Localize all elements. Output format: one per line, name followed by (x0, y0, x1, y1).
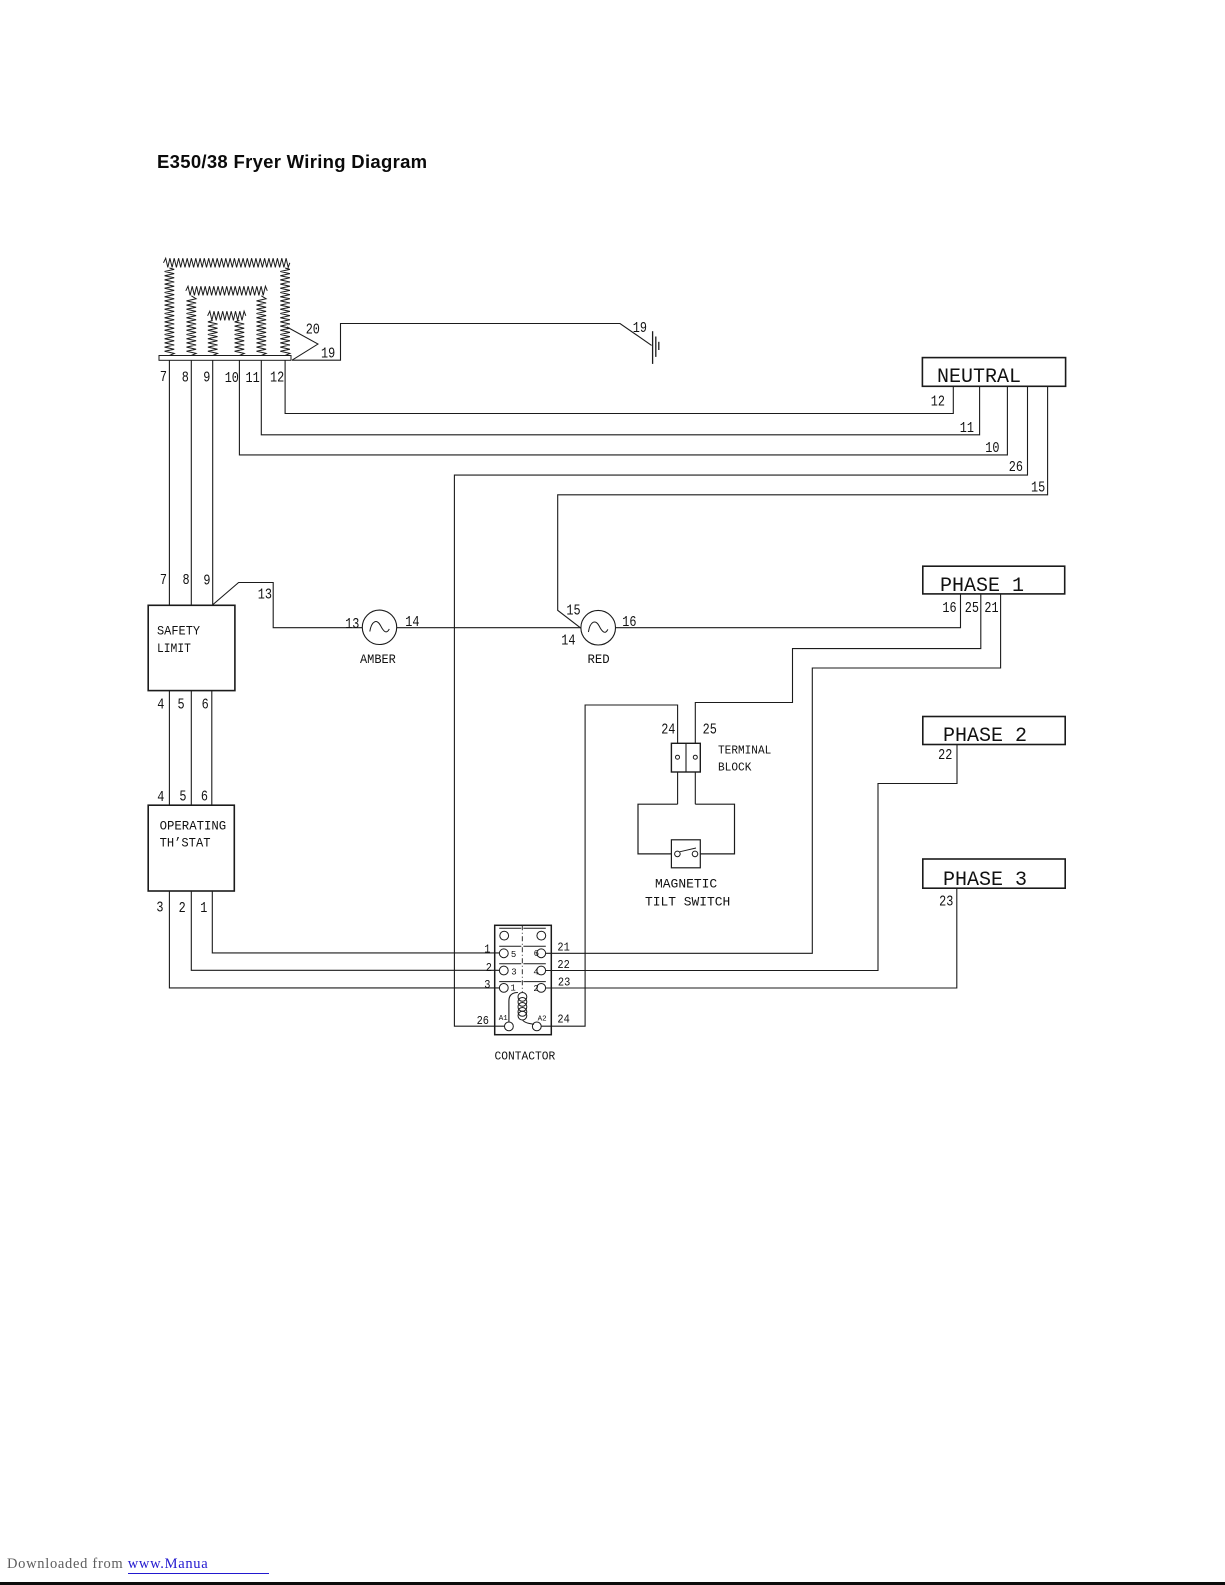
wire 16 RED lamp to PHASE 1 (616, 594, 961, 628)
tilt switch contact left (675, 851, 681, 857)
svg-text:20: 20 (306, 322, 320, 338)
wire 10 to NEUTRAL (239, 360, 1007, 455)
heating element E3 inner coil (208, 311, 246, 355)
NEUTRAL bus box (922, 358, 1065, 387)
svg-text:1: 1 (484, 944, 490, 957)
wire 2 op stat to contactor (191, 891, 499, 970)
wire 15 NEUTRAL to RED lamp (558, 386, 1048, 628)
heating element E2 middle coil (186, 286, 267, 355)
svg-text:15: 15 (566, 604, 580, 620)
wire 26 NEUTRAL to contactor A1 (454, 386, 1027, 1026)
svg-text:4: 4 (157, 698, 164, 714)
svg-text:A2: A2 (538, 1015, 547, 1023)
svg-text:3: 3 (511, 967, 516, 977)
wire 13 safety limit to AMBER lamp (213, 583, 362, 628)
svg-text:9: 9 (203, 574, 210, 590)
terminal lead 9 (212, 360, 214, 605)
svg-text:8: 8 (183, 573, 190, 589)
svg-text:9: 9 (203, 371, 210, 387)
svg-text:21: 21 (557, 941, 569, 954)
operating thermostat box (148, 805, 234, 891)
contactor centerline (521, 925, 523, 992)
wire 3 op stat to contactor (169, 891, 499, 988)
svg-text:24: 24 (557, 1013, 569, 1026)
svg-text:5: 5 (179, 790, 186, 806)
svg-text:6: 6 (201, 790, 208, 806)
indicator lamp RED (581, 610, 616, 645)
svg-text:25: 25 (965, 601, 979, 617)
svg-text:24: 24 (661, 723, 675, 739)
svg-text:11: 11 (960, 421, 974, 437)
svg-text:21: 21 (984, 601, 998, 617)
wire 12 to NEUTRAL (285, 360, 953, 413)
PHASE 1 supply box (923, 566, 1065, 594)
svg-text:19: 19 (633, 321, 647, 337)
terminal block lead 25 down (694, 772, 696, 804)
terminal 24 contact (676, 755, 680, 759)
contactor top contacts (500, 931, 509, 940)
svg-text:AMBER: AMBER (360, 653, 396, 667)
svg-text:22: 22 (557, 959, 569, 972)
svg-text:13: 13 (258, 587, 272, 603)
svg-text:OPERATING: OPERATING (160, 819, 227, 833)
svg-text:23: 23 (939, 894, 953, 910)
svg-text:7: 7 (160, 573, 167, 589)
svg-text:4: 4 (533, 967, 538, 977)
wire 5 (190, 691, 192, 806)
svg-text:12: 12 (931, 394, 945, 410)
page bottom rule (0, 1582, 1225, 1585)
svg-text:TH’STAT: TH’STAT (160, 836, 211, 850)
svg-text:16: 16 (942, 601, 956, 617)
indicator lamp AMBER (362, 610, 396, 644)
svg-text:6: 6 (202, 698, 209, 714)
contactor pole bars (499, 927, 521, 929)
probe arrow (element sensor) (287, 327, 318, 360)
svg-text:RED: RED (588, 653, 610, 667)
tilt switch contact right (692, 851, 698, 857)
svg-text:TERMINAL: TERMINAL (718, 745, 771, 758)
svg-text:26: 26 (1009, 460, 1023, 476)
svg-text:23: 23 (558, 977, 570, 990)
svg-text:1: 1 (510, 984, 515, 994)
contactor pole 3-4 contacts (499, 966, 508, 975)
ground symbol (652, 331, 654, 364)
safety limit thermostat box (148, 605, 235, 690)
svg-text:PHASE 1: PHASE 1 (940, 575, 1024, 598)
terminal block TB1 (671, 743, 700, 772)
svg-text:LIMIT: LIMIT (157, 642, 191, 656)
wire 25 PHASE 1 to terminal block (695, 594, 981, 743)
svg-text:14: 14 (561, 633, 575, 649)
wire 22 PHASE 2 to contactor (546, 745, 958, 971)
svg-text:16: 16 (622, 615, 636, 631)
svg-text:A1: A1 (499, 1015, 509, 1023)
svg-text:1: 1 (200, 901, 207, 917)
contactor pole 1-2 contacts (499, 984, 508, 993)
svg-text:2: 2 (533, 984, 538, 994)
svg-text:2: 2 (486, 962, 492, 975)
svg-text:25: 25 (703, 723, 717, 739)
wire 23 PHASE 3 to contactor (546, 888, 957, 988)
svg-text:14: 14 (405, 615, 419, 631)
svg-text:13: 13 (345, 617, 359, 633)
wire 1 op stat to contactor (212, 891, 499, 953)
wire 6 (211, 691, 213, 806)
svg-text:SAFETY: SAFETY (157, 624, 201, 638)
diagram title (157, 151, 427, 173)
svg-text:PHASE 3: PHASE 3 (943, 869, 1027, 892)
svg-text:7: 7 (160, 370, 167, 386)
tilt switch body (671, 840, 700, 868)
contactor terminal A2 (532, 1022, 541, 1031)
contactor coil lead to A2 (522, 1020, 534, 1025)
element terminal bus bar (159, 356, 291, 361)
svg-text:26: 26 (477, 1015, 489, 1028)
svg-text:CONTACTOR: CONTACTOR (495, 1050, 556, 1063)
wire 24 terminal block to contactor A2 (541, 705, 677, 1026)
svg-text:4: 4 (157, 790, 164, 806)
heating element E1 outer coil (164, 258, 290, 355)
PHASE 3 supply box (923, 859, 1065, 888)
PHASE 2 supply box (923, 717, 1065, 745)
terminal 25 contact (693, 755, 697, 759)
svg-text:3: 3 (156, 901, 163, 917)
svg-text:22: 22 (938, 748, 952, 764)
svg-text:15: 15 (1031, 480, 1045, 496)
wire 11 to NEUTRAL (261, 360, 979, 435)
svg-text:11: 11 (246, 371, 260, 387)
wire 19 from element to ground (292, 324, 652, 361)
terminal lead 8 (190, 360, 192, 605)
contactor body (495, 925, 552, 1034)
contactor pole 5-6 contacts (499, 949, 508, 958)
contactor coil lead from A1 (509, 993, 518, 1022)
svg-text:12: 12 (270, 371, 284, 387)
svg-text:10: 10 (225, 371, 239, 387)
svg-text:8: 8 (182, 371, 189, 387)
wire 14 AMBER to RED lamp (397, 627, 581, 629)
wire 21 PHASE 1 to contactor (546, 594, 1001, 953)
svg-text:19: 19 (321, 346, 335, 362)
svg-text:MAGNETIC: MAGNETIC (655, 877, 717, 892)
svg-text:3: 3 (484, 979, 490, 992)
tilt switch arm (680, 848, 696, 852)
svg-text:2: 2 (179, 901, 186, 917)
terminal block lead 24 down (677, 772, 679, 804)
svg-text:10: 10 (985, 441, 999, 457)
svg-text:PHASE 2: PHASE 2 (943, 725, 1027, 748)
svg-text:BLOCK: BLOCK (718, 761, 751, 774)
wire 4 (168, 691, 170, 806)
terminal lead 7 (168, 360, 170, 605)
svg-text:NEUTRAL: NEUTRAL (937, 366, 1021, 389)
svg-text:6: 6 (534, 949, 539, 959)
svg-text:TILT SWITCH: TILT SWITCH (645, 894, 730, 909)
contactor coil (518, 993, 527, 1002)
contactor terminal A1 (505, 1022, 514, 1031)
tilt switch enclosure (638, 804, 735, 854)
svg-text:5: 5 (178, 698, 185, 714)
svg-text:5: 5 (511, 950, 516, 960)
footer credit (7, 1556, 269, 1574)
